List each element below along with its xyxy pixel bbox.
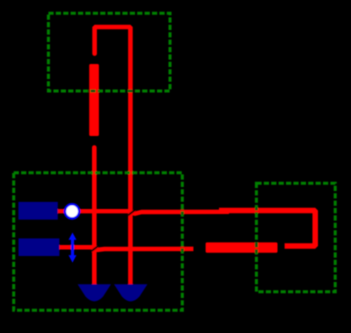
battery/terminal block 2 (navy rectangle) bbox=[19, 238, 60, 256]
battery/terminal block 1 (navy rectangle) bbox=[18, 202, 57, 220]
dashed group box: right (load block) bbox=[256, 183, 335, 292]
dark blend: left box edge over terminal wire bbox=[181, 212, 184, 214]
dark blend: right box edge over R2 bbox=[255, 242, 258, 247]
dashed group box: top (around R1 top loop) bbox=[48, 13, 170, 91]
wire: hook from top net down into right box bbox=[219, 211, 315, 247]
dark blend of dashes crossing red: top box edge over vertical wire bbox=[128, 90, 133, 93]
adjustment arrow (double-headed, bright blue) bbox=[69, 233, 77, 263]
wire: R1 bottom lead down to ground 1 bbox=[92, 148, 97, 284]
resistor R2 (horizontal red bar) bbox=[206, 242, 278, 252]
dark blend: left box edge over lower wire bbox=[181, 249, 184, 252]
dark blend of dashes crossing red: top box edge over R1 bbox=[91, 90, 95, 93]
crossover notch at node (94,248) bbox=[90, 246, 98, 252]
dashed group box: bottom-left (source block) bbox=[14, 173, 183, 310]
crossover notch at node (130,212) bbox=[128, 210, 136, 216]
wire: terminal node line with jog at vertical net crossing bbox=[54, 211, 229, 214]
resistor R1 (vertical red bar) bbox=[89, 64, 99, 136]
node terminal (white circle with blue ring) bbox=[65, 204, 79, 218]
wire: lower line from battery 2 with jog at vertical net crossing bbox=[56, 247, 193, 250]
ground 1 bbox=[78, 284, 111, 301]
dark blend: right box edge over hook wire bbox=[255, 208, 258, 211]
ground 2 bbox=[114, 284, 147, 301]
wire: top loop from R1 top over to right vertical net (n-shape) bbox=[95, 27, 131, 284]
